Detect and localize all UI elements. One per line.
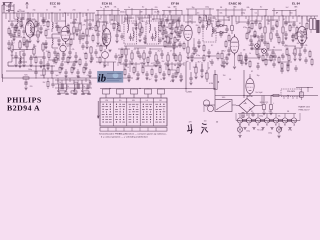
resistor R36 <box>71 91 77 93</box>
ground heater <box>270 128 273 130</box>
svg-text:478: 478 <box>189 121 192 123</box>
ground G3 <box>14 65 17 67</box>
wire link <box>124 17 134 19</box>
value label t <box>56 55 59 57</box>
wire feeder <box>100 15 102 18</box>
value label t <box>281 55 283 57</box>
svg-text:47k: 47k <box>21 51 24 53</box>
wire top rail mid <box>95 14 212 16</box>
dial lamp LA2 <box>276 127 281 132</box>
value label t <box>299 23 301 25</box>
resistor R40 <box>206 70 208 82</box>
ratio det transformer can <box>203 18 216 42</box>
wire feeder <box>238 16 240 23</box>
wire ps0 <box>249 74 251 96</box>
ground g <box>136 78 139 80</box>
capacitor Cx14 <box>61 55 64 62</box>
wire upper stub <box>209 8 211 15</box>
svg-text:2n2: 2n2 <box>227 17 230 19</box>
value label <box>19 9 22 11</box>
label tube B2 type ECH 81 <box>102 1 113 8</box>
wire feeder <box>92 13 94 22</box>
wire feeder <box>150 15 152 18</box>
value label t <box>268 21 271 23</box>
ground g <box>120 56 123 58</box>
wire feeder <box>245 16 247 19</box>
capacitor C39 <box>298 50 301 58</box>
ground g <box>162 78 165 80</box>
wire ps1 <box>204 105 210 112</box>
ground g <box>88 76 91 78</box>
coil core K2 <box>77 84 80 90</box>
resistor Ry7 <box>181 24 183 32</box>
value label rb <box>249 31 251 33</box>
svg-text:47k: 47k <box>22 27 25 29</box>
wire bus y78 left <box>2 77 133 79</box>
value label <box>197 11 200 14</box>
wire mid drop <box>195 62 197 68</box>
wire feeder <box>288 16 290 23</box>
coil core K3 <box>87 85 90 90</box>
wire feeder <box>261 16 263 20</box>
wire feeder <box>124 15 126 22</box>
wire mid drop <box>147 62 149 66</box>
resistor Ry42 <box>99 56 101 64</box>
capacitor Cx73 <box>171 73 174 80</box>
capacitor Cx35 <box>172 41 175 48</box>
wire feeder <box>67 13 69 16</box>
wire feeder <box>175 15 177 22</box>
capacitor am <box>87 92 90 95</box>
wire hc3 <box>103 46 111 67</box>
junction dot <box>271 95 272 96</box>
resistor R42 <box>47 78 49 89</box>
capacitor Cx46 <box>227 47 230 54</box>
capacitor C30 <box>192 44 195 52</box>
ground g <box>291 40 294 42</box>
wire feeder <box>85 13 87 16</box>
svg-text:56k: 56k <box>220 12 223 14</box>
wire feeder <box>296 16 298 22</box>
value label t <box>98 31 101 33</box>
IF T2 primary coil <box>150 15 151 33</box>
tube B1 ECC85 triode a <box>61 25 70 44</box>
junction dot <box>214 88 215 89</box>
FM dipole antenna <box>3 3 6 13</box>
junction dot <box>185 88 186 89</box>
resistor R17 <box>177 18 179 30</box>
capacitor C40 <box>34 66 37 76</box>
wire ps right rail <box>296 87 313 92</box>
capacitor C7 <box>22 50 25 58</box>
capacitor Cy31 <box>42 17 45 24</box>
node dot A <box>12 49 34 50</box>
value label t <box>229 79 232 81</box>
label small i5 <box>158 51 161 53</box>
capacitor Cy37 <box>52 57 55 64</box>
wire mid drop <box>135 62 137 72</box>
wire feeder <box>208 15 210 18</box>
wire vertical x215 <box>214 70 216 99</box>
resistor Ry1 <box>163 24 165 32</box>
wire upper stub <box>117 8 119 15</box>
wire upper stub <box>187 9 189 15</box>
ground g <box>60 68 63 70</box>
electrolytic C32 <box>231 16 234 34</box>
wire lk1 <box>12 40 34 48</box>
wire feeder <box>95 15 97 24</box>
resistor Rz4 <box>262 54 264 62</box>
capacitor C24 <box>176 31 179 38</box>
capacitor Cx20 <box>88 21 91 28</box>
wire mid drop <box>103 62 105 68</box>
capacitor Cy45 <box>138 53 141 60</box>
resistor Rx8 <box>45 29 47 38</box>
value label ht <box>241 116 245 118</box>
wire upper link <box>186 8 214 10</box>
value label u <box>192 7 195 9</box>
wire upper stub <box>203 10 205 15</box>
value label t <box>193 67 196 69</box>
wire feeder <box>210 15 212 24</box>
value label rb <box>273 47 276 49</box>
value label t <box>146 23 149 25</box>
svg-text:B5: B5 <box>275 125 277 127</box>
svg-text:460kc/s: 460kc/s <box>120 11 126 13</box>
resistor Rz2 <box>254 30 256 38</box>
wire mid drop <box>165 62 167 70</box>
capacitor Cx69 <box>154 73 157 80</box>
resistor Rx6 <box>32 26 34 35</box>
junction dot <box>231 15 232 16</box>
trimmer C3 <box>20 13 23 24</box>
label small e4 <box>67 46 70 48</box>
ground g <box>250 48 253 50</box>
label small e2 <box>83 25 86 27</box>
wire feeder <box>173 15 175 21</box>
value label t <box>186 61 189 63</box>
wire link <box>188 57 204 59</box>
resistor Ry44 <box>119 56 121 64</box>
capacitor Cy27 <box>292 21 295 28</box>
wire lb4 <box>8 65 55 67</box>
resistor Rx23 <box>100 44 102 53</box>
value label t <box>136 79 139 81</box>
resistor Rx74 <box>177 66 179 75</box>
switch section box SK5 <box>158 89 165 99</box>
value label t <box>209 61 211 63</box>
wire feeder <box>70 13 72 19</box>
value label t <box>138 19 141 21</box>
heater series resistor <box>251 119 255 121</box>
switch section box SK2 <box>117 89 124 99</box>
label small b2 <box>74 88 77 90</box>
svg-text:47k: 47k <box>12 27 15 29</box>
label bridge <box>260 102 268 104</box>
wire feeder <box>248 16 250 25</box>
wire link <box>120 63 140 65</box>
ground g <box>222 66 225 68</box>
resistor R39 <box>195 64 197 76</box>
value label <box>87 9 89 11</box>
wire feeder <box>213 16 215 19</box>
ground G1 <box>15 25 23 29</box>
wire mid drop <box>201 62 203 72</box>
wire feeder <box>105 15 107 22</box>
svg-text:47k: 47k <box>146 23 149 25</box>
capacitor C21 <box>138 31 141 38</box>
resistor Ry52 <box>225 40 227 48</box>
svg-text:27k: 27k <box>83 25 86 27</box>
value label t <box>160 79 162 81</box>
wire link <box>26 19 36 21</box>
svg-text:50: 50 <box>208 68 210 70</box>
wire mid drop <box>129 62 131 72</box>
dial lamp LA1 <box>237 127 242 132</box>
svg-text:5p6: 5p6 <box>186 61 189 63</box>
svg-text:B2D94 A: B2D94 A <box>7 103 40 112</box>
capacitor Cy51 <box>210 59 213 66</box>
svg-text:1n: 1n <box>46 9 48 11</box>
capacitor Cx19 <box>81 43 84 50</box>
wire feeder <box>89 13 91 20</box>
capacitor C27 <box>148 48 151 57</box>
svg-text:100p: 100p <box>28 69 32 71</box>
wire upper stub <box>257 10 259 16</box>
wire link <box>70 22 82 24</box>
wire link <box>84 19 94 21</box>
ground g <box>12 39 15 41</box>
ground heater <box>279 128 282 130</box>
wire link <box>48 59 60 61</box>
wire feeder <box>267 16 269 23</box>
svg-text:0,1: 0,1 <box>160 31 162 33</box>
ground G9 <box>85 47 88 49</box>
wire heater drop <box>239 114 241 118</box>
svg-text:5p6: 5p6 <box>47 29 50 31</box>
value label <box>33 9 36 11</box>
capacitor Cx42 <box>207 49 210 56</box>
wire feeder <box>223 16 225 25</box>
wire feeder <box>167 15 169 21</box>
svg-text:0.1: 0.1 <box>134 49 137 51</box>
coil L9 <box>82 80 83 92</box>
svg-text:47k: 47k <box>305 45 308 47</box>
svg-text:9,5: 9,5 <box>19 9 22 11</box>
label small l2 <box>27 42 30 44</box>
wire link <box>138 17 150 19</box>
value label t <box>257 63 260 65</box>
resistor Ry46 <box>147 56 149 64</box>
svg-text:150: 150 <box>285 45 288 47</box>
svg-text:8,2: 8,2 <box>260 7 262 9</box>
svg-text:0,1: 0,1 <box>151 63 153 65</box>
capacitor Cy29 <box>300 41 303 48</box>
svg-text:2k2: 2k2 <box>196 25 199 27</box>
label small m1 <box>198 62 210 70</box>
junction dot <box>298 15 299 16</box>
svg-text:B3: B3 <box>257 125 259 127</box>
capacitor Cz3 <box>257 53 260 60</box>
wire link <box>97 21 108 23</box>
capacitor C16 <box>96 30 99 38</box>
wire link <box>185 21 196 23</box>
label small h2 <box>111 20 114 22</box>
label small a1 <box>260 39 264 41</box>
value label t <box>227 17 230 19</box>
svg-text:1k: 1k <box>91 29 93 31</box>
resistor Rx84 <box>79 58 81 67</box>
value label rb <box>305 45 308 47</box>
capacitor Cx81 <box>60 61 63 68</box>
capacitor Cx56 <box>284 31 287 38</box>
label small a3 <box>284 24 288 26</box>
tube B4 EABC80 <box>230 35 239 55</box>
resistor R25 <box>221 50 223 62</box>
svg-text:8,2: 8,2 <box>60 27 62 29</box>
value label t <box>28 69 32 71</box>
resistor Ry28 <box>304 28 306 36</box>
junction dot <box>162 14 163 15</box>
svg-text:47k: 47k <box>72 49 75 51</box>
wire feeder <box>118 15 120 24</box>
value label u <box>247 7 250 9</box>
svg-text:5p6: 5p6 <box>106 23 109 25</box>
value label t <box>96 57 99 59</box>
capacitor Cx38 <box>190 53 193 60</box>
value label t <box>21 51 24 53</box>
junction dot <box>51 12 52 13</box>
label small l3 <box>34 46 37 48</box>
resistor Rx28 <box>121 48 123 57</box>
coil L8 <box>74 80 75 92</box>
resistor Ry22 <box>259 22 261 30</box>
svg-text:10,7Mc: 10,7Mc <box>154 11 160 13</box>
resistor Rx37 <box>183 42 185 51</box>
value label t <box>166 27 169 29</box>
coil core K1 <box>61 84 64 90</box>
caption line 2 <box>101 136 149 139</box>
resistor Ry54 <box>249 60 251 68</box>
resistor Rx66 <box>142 66 144 75</box>
svg-text:2k2: 2k2 <box>12 42 15 44</box>
capacitor C41 <box>50 66 53 76</box>
wire mid drop <box>153 62 155 66</box>
capacitor C15 <box>74 52 77 60</box>
svg-text:EL 84: EL 84 <box>292 1 300 5</box>
wire mid drop <box>183 62 185 66</box>
junction dot <box>43 65 44 66</box>
resistor R9 <box>86 13 88 38</box>
svg-text:33k: 33k <box>114 7 117 9</box>
value label u <box>128 7 130 9</box>
value label t <box>249 53 251 55</box>
wire link <box>10 36 22 38</box>
label small i6 <box>170 51 172 53</box>
value label t <box>283 19 285 21</box>
wire feeder <box>292 16 294 19</box>
capacitor Cy14 <box>201 23 204 30</box>
resistor Rz14 <box>311 58 313 66</box>
value label ht <box>278 116 281 118</box>
wire upper link <box>216 9 246 11</box>
wire bus y71 left <box>6 70 58 72</box>
capacitor Cx48 <box>244 53 247 60</box>
value label <box>255 12 258 14</box>
switch section box SK3 <box>131 89 138 99</box>
capacitor Cy43 <box>114 53 117 60</box>
ground G5 <box>29 65 32 67</box>
wire link <box>250 48 264 50</box>
wire feeder <box>183 15 185 22</box>
resistor R10 <box>90 46 92 56</box>
resistor Ry13 <box>199 16 201 24</box>
resistor R3 <box>19 40 21 50</box>
label small e1 <box>73 20 77 22</box>
ground g <box>244 60 247 62</box>
value label ht <box>269 111 272 113</box>
resistor R14 <box>139 20 141 32</box>
wire am stub <box>57 78 59 82</box>
resistor R24 <box>187 42 189 56</box>
wire upper stub <box>97 10 99 15</box>
ground g <box>104 40 107 42</box>
svg-text:470p: 470p <box>196 55 200 57</box>
resistor R23 <box>179 52 181 64</box>
ground g <box>145 78 148 80</box>
ground g <box>178 36 181 38</box>
svg-text:470p: 470p <box>288 130 292 132</box>
capacitor Cy53 <box>240 59 243 66</box>
wire heater top link <box>238 113 296 115</box>
value label bl <box>30 82 46 88</box>
wire heater drop <box>275 114 277 118</box>
ground g <box>179 80 182 82</box>
svg-text:10k: 10k <box>138 19 141 21</box>
svg-text:2k2: 2k2 <box>297 43 300 45</box>
value label t <box>203 15 207 17</box>
resistor Rx61 <box>306 22 308 31</box>
label small i1 <box>142 21 145 23</box>
capacitor C45 <box>200 64 203 75</box>
capacitor Cz7 <box>273 53 276 60</box>
svg-text:8,2: 8,2 <box>211 45 213 47</box>
resistor Rx5 <box>23 36 25 45</box>
value label <box>290 12 293 14</box>
junction dot <box>109 88 110 89</box>
wire ec1 <box>52 13 74 48</box>
wire heater links <box>243 120 292 122</box>
capacitor C5 <box>41 13 44 24</box>
heater series resistor <box>278 119 282 121</box>
value label t <box>60 27 62 29</box>
wire feeder <box>228 16 230 21</box>
value label t <box>196 55 200 57</box>
capacitor C37 <box>275 30 278 38</box>
value label t <box>65 79 68 81</box>
wire link <box>266 19 280 21</box>
capacitor Cy33 <box>10 21 13 28</box>
ground g <box>39 66 42 68</box>
ground heater <box>288 128 291 130</box>
svg-text:1n: 1n <box>87 9 89 11</box>
ratio det secondary <box>212 23 213 37</box>
resistor Rx64 <box>133 66 135 75</box>
value label t <box>223 75 226 77</box>
wire upper stub <box>181 10 183 15</box>
wire top rail right <box>212 15 318 17</box>
ground g <box>271 56 274 58</box>
